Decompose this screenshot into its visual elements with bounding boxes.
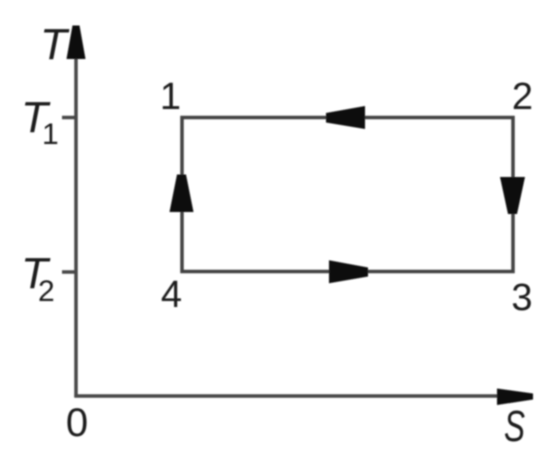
x-axis arrowhead [497,389,533,406]
tick T1 [62,116,76,120]
cycle rectangle 1-2-3-4 [182,118,513,272]
arrow on right edge (2 to 3, pointing down) [500,177,525,214]
x-axis (S axis) [74,394,505,398]
svg-text:S: S [504,402,525,451]
svg-text:4: 4 [161,274,182,316]
svg-text:0: 0 [66,401,88,445]
svg-text:3: 3 [511,277,532,319]
svg-text:2: 2 [512,76,533,118]
arrow on left edge (4 to 1, pointing up) [170,175,194,213]
arrow on top edge (2 to 1, pointing left) [326,106,365,129]
svg-text:2: 2 [38,275,55,308]
y-axis (T axis) [74,44,78,398]
y-axis arrowhead [67,26,86,60]
svg-text:T: T [40,20,70,69]
svg-text:1: 1 [42,118,59,151]
svg-text:1: 1 [160,76,181,118]
arrow on bottom edge (4 to 3, pointing right) [329,260,368,283]
tick T2 [62,270,76,274]
